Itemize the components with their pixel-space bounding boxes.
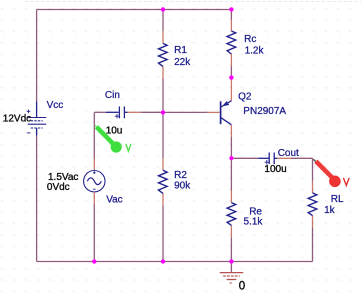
- svg-text:RL: RL: [331, 194, 344, 205]
- resistor R2 pins: [162, 158, 164, 205]
- svg-text:12Vdc: 12Vdc: [3, 114, 31, 125]
- svg-text:Cout: Cout: [278, 148, 299, 159]
- wire Vac column upper: [93, 112, 95, 158]
- battery plus mark: [27, 110, 31, 114]
- svg-text:5.1k: 5.1k: [244, 216, 264, 227]
- wire base node to R2: [162, 112, 164, 158]
- svg-text:90k: 90k: [174, 181, 191, 192]
- wire bottom rail: [37, 261, 313, 263]
- node top R1 junction: [161, 7, 165, 11]
- capacitor Cin plus mark: [115, 114, 119, 118]
- wire Rc top: [230, 10, 232, 20]
- source Vac plus mark: [93, 171, 96, 174]
- source Vac minus mark: [93, 188, 96, 190]
- capacitor Cin lead right: [125, 111, 128, 113]
- resistor Re pins: [230, 191, 232, 238]
- node Rc-emitter junction: [229, 75, 233, 79]
- svg-text:PN2907A: PN2907A: [243, 106, 286, 117]
- resistor Re zigzag: [227, 203, 236, 226]
- wire R2 bottom: [162, 206, 164, 262]
- transistor Q2 base pin: [208, 111, 220, 113]
- transistor Q2 emitter diagonal: [221, 101, 232, 107]
- transistor Q2 collector pin: [230, 125, 232, 137]
- resistor R2 zigzag: [159, 170, 168, 193]
- node base junction: [161, 110, 165, 114]
- svg-text:Vac: Vac: [106, 195, 123, 206]
- svg-text:Vcc: Vcc: [47, 100, 64, 111]
- capacitor Cout pin right: [277, 157, 291, 159]
- resistor Rc pins: [230, 20, 232, 67]
- ground stub: [230, 262, 232, 273]
- transistor Q2 collector diagonal: [221, 118, 232, 125]
- svg-text:Rc: Rc: [244, 34, 256, 45]
- capacitor Cin plates: [119, 107, 124, 119]
- resistor RL pins: [312, 181, 314, 228]
- wire Cin to base node: [141, 111, 163, 113]
- battery V1 Vcc pins: [36, 102, 38, 136]
- wire Re bottom: [230, 238, 232, 262]
- source Vac pin bottom: [93, 192, 95, 204]
- svg-text:0Vdc: 0Vdc: [47, 182, 70, 193]
- node ground junction: [229, 259, 233, 263]
- svg-text:R2: R2: [174, 170, 187, 181]
- wire Cin left: [94, 111, 106, 113]
- svg-text:1.2k: 1.2k: [245, 46, 265, 57]
- wire collector node to Re: [230, 158, 232, 190]
- capacitor Cout plates: [269, 153, 274, 165]
- capacitor Cin pin right: [128, 111, 142, 113]
- wire top rail: [37, 9, 232, 11]
- transistor Q2 emitter arrow: [224, 102, 229, 106]
- probe red marker: [313, 159, 349, 187]
- source Vac pin top: [93, 159, 95, 171]
- transistor Q2 base bar: [220, 101, 222, 124]
- wire R1 top: [162, 10, 164, 32]
- node Vac bottom junction: [92, 259, 96, 263]
- svg-text:100u: 100u: [264, 164, 286, 175]
- wire Cout to RL corner: [291, 157, 313, 159]
- battery V1 Vcc plates: [28, 118, 47, 129]
- capacitor Cin lead left: [106, 111, 119, 113]
- svg-text:Q2: Q2: [238, 92, 252, 103]
- wire base horizontal: [163, 111, 208, 113]
- battery minus mark: [27, 132, 31, 134]
- node R2 bottom junction: [161, 259, 165, 263]
- ground symbol 0: [220, 273, 244, 283]
- capacitor Cout plus mark: [265, 160, 269, 164]
- svg-text:10u: 10u: [106, 126, 123, 137]
- source Vac circle: [84, 171, 105, 192]
- capacitor Cout lead right: [274, 157, 277, 159]
- wire Vac column lower: [93, 204, 95, 262]
- wire collector to node: [230, 137, 232, 158]
- wire RL bottom: [312, 228, 314, 262]
- svg-text:22k: 22k: [174, 57, 191, 68]
- wire Rc bottom: [230, 66, 232, 78]
- node collector-Cout junction: [229, 156, 233, 160]
- svg-text:R1: R1: [174, 45, 187, 56]
- wire left rail lower: [36, 136, 38, 262]
- svg-text:0: 0: [239, 281, 245, 293]
- top edge artifact: [25, 1, 361, 3]
- source Vac sine: [87, 178, 101, 185]
- probe green marker: [95, 125, 131, 152]
- svg-text:1k: 1k: [324, 205, 336, 216]
- transistor Q2 emitter pin: [230, 78, 232, 101]
- wire left rail upper: [36, 10, 38, 102]
- resistor R1 zigzag: [159, 43, 168, 66]
- resistor RL zigzag: [308, 193, 317, 216]
- capacitor Cout lead left: [259, 157, 269, 159]
- resistor Rc zigzag: [227, 31, 236, 54]
- wire RL top: [312, 158, 314, 181]
- wire R1 bottom to base node: [162, 79, 164, 113]
- svg-text:Cin: Cin: [105, 90, 120, 101]
- wire node to Cout: [231, 157, 258, 159]
- resistor R1 pins: [162, 31, 164, 79]
- node top right corner junction: [229, 7, 233, 11]
